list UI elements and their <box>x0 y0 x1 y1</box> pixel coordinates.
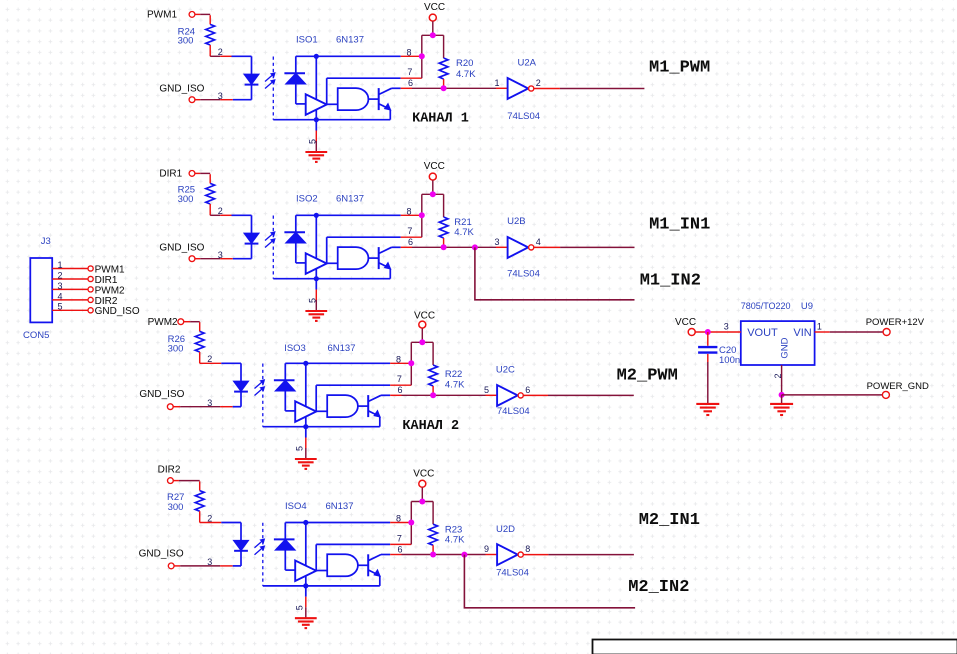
svg-text:100n: 100n <box>719 355 740 366</box>
svg-text:5: 5 <box>307 298 317 303</box>
svg-text:74LS04: 74LS04 <box>496 568 529 579</box>
svg-text:J3: J3 <box>41 236 51 247</box>
svg-text:5: 5 <box>307 139 317 144</box>
svg-text:7: 7 <box>397 374 402 384</box>
svg-text:74LS04: 74LS04 <box>507 268 540 279</box>
svg-text:VCC: VCC <box>413 468 434 479</box>
svg-text:VCC: VCC <box>414 311 435 322</box>
svg-text:GND_ISO: GND_ISO <box>95 306 140 317</box>
svg-text:U9: U9 <box>801 301 813 312</box>
svg-text:7805/TO220: 7805/TO220 <box>741 301 791 311</box>
svg-text:4: 4 <box>536 237 541 247</box>
svg-text:3: 3 <box>495 237 500 247</box>
svg-text:9: 9 <box>484 544 489 554</box>
svg-text:74LS04: 74LS04 <box>507 111 540 122</box>
svg-text:GND: GND <box>780 337 791 358</box>
svg-text:DIR1: DIR1 <box>159 168 182 179</box>
svg-text:ISO3: ISO3 <box>284 343 306 354</box>
svg-text:5: 5 <box>294 446 304 451</box>
svg-text:300: 300 <box>168 343 184 354</box>
svg-text:VCC: VCC <box>675 317 696 328</box>
svg-text:M1_PWM: M1_PWM <box>649 59 710 78</box>
svg-text:PWM2: PWM2 <box>95 285 125 296</box>
svg-text:300: 300 <box>178 194 194 205</box>
svg-text:4.7K: 4.7K <box>454 227 474 238</box>
svg-text:8: 8 <box>407 207 412 217</box>
svg-text:POWER+12V: POWER+12V <box>866 317 925 328</box>
svg-text:6: 6 <box>398 385 403 395</box>
svg-text:8: 8 <box>396 355 401 365</box>
svg-text:U2D: U2D <box>496 524 515 535</box>
svg-text:3: 3 <box>207 557 212 567</box>
svg-text:5: 5 <box>294 605 304 610</box>
svg-text:6N137: 6N137 <box>336 194 364 205</box>
svg-text:POWER_GND: POWER_GND <box>867 381 929 392</box>
svg-text:2: 2 <box>207 513 212 523</box>
svg-text:GND_ISO: GND_ISO <box>139 389 184 400</box>
svg-text:4.7K: 4.7K <box>445 379 465 390</box>
svg-text:6N137: 6N137 <box>328 343 356 354</box>
svg-text:2: 2 <box>207 354 212 364</box>
svg-text:U2A: U2A <box>518 58 537 69</box>
svg-text:GND_ISO: GND_ISO <box>159 242 204 253</box>
svg-text:R20: R20 <box>456 58 473 69</box>
svg-text:M2_IN2: M2_IN2 <box>628 578 689 597</box>
svg-text:VIN: VIN <box>793 327 811 339</box>
svg-text:U2B: U2B <box>507 216 525 227</box>
svg-text:M2_IN1: M2_IN1 <box>639 511 700 530</box>
svg-text:8: 8 <box>407 48 412 58</box>
svg-text:1: 1 <box>495 78 500 88</box>
svg-text:GND_ISO: GND_ISO <box>159 83 204 94</box>
svg-text:1: 1 <box>58 260 63 270</box>
svg-text:1: 1 <box>817 322 822 332</box>
svg-text:КАНАЛ 2: КАНАЛ 2 <box>402 419 459 434</box>
svg-text:M1_IN1: M1_IN1 <box>649 216 710 235</box>
svg-text:7: 7 <box>397 533 402 543</box>
svg-text:ISO2: ISO2 <box>296 194 318 205</box>
svg-text:КАНАЛ 1: КАНАЛ 1 <box>412 112 469 127</box>
svg-text:ISO4: ISO4 <box>285 501 307 512</box>
svg-text:7: 7 <box>407 226 412 236</box>
svg-text:6: 6 <box>408 237 413 247</box>
svg-text:2: 2 <box>58 270 63 280</box>
svg-text:PWM1: PWM1 <box>95 264 125 275</box>
svg-text:3: 3 <box>207 398 212 408</box>
svg-text:74LS04: 74LS04 <box>497 406 530 417</box>
svg-text:2: 2 <box>536 78 541 88</box>
svg-text:6: 6 <box>398 544 403 554</box>
svg-text:CON5: CON5 <box>23 330 49 341</box>
svg-text:5: 5 <box>484 385 489 395</box>
svg-text:M1_IN2: M1_IN2 <box>640 272 701 291</box>
svg-text:2: 2 <box>218 206 223 216</box>
svg-text:3: 3 <box>724 322 729 332</box>
svg-text:DIR2: DIR2 <box>158 465 181 476</box>
svg-text:8: 8 <box>525 544 530 554</box>
svg-text:VCC: VCC <box>424 161 445 172</box>
svg-text:6N137: 6N137 <box>326 501 354 512</box>
svg-text:4.7K: 4.7K <box>456 69 476 80</box>
svg-text:6: 6 <box>525 385 530 395</box>
svg-text:3: 3 <box>58 281 63 291</box>
svg-text:GND_ISO: GND_ISO <box>139 549 184 560</box>
svg-text:3: 3 <box>218 91 223 101</box>
svg-text:8: 8 <box>396 514 401 524</box>
svg-text:ISO1: ISO1 <box>296 35 318 46</box>
svg-text:M2_PWM: M2_PWM <box>617 367 678 386</box>
svg-text:5: 5 <box>58 302 63 312</box>
svg-text:PWM2: PWM2 <box>148 317 178 328</box>
svg-text:PWM1: PWM1 <box>147 10 177 21</box>
svg-text:3: 3 <box>218 250 223 260</box>
svg-text:4.7K: 4.7K <box>445 535 465 546</box>
svg-text:300: 300 <box>178 35 194 46</box>
svg-text:2: 2 <box>773 373 783 378</box>
svg-text:300: 300 <box>168 502 184 513</box>
svg-text:7: 7 <box>407 67 412 77</box>
svg-text:DIR1: DIR1 <box>95 275 118 286</box>
svg-text:U2C: U2C <box>496 364 515 375</box>
svg-text:2: 2 <box>218 47 223 57</box>
svg-text:6N137: 6N137 <box>336 35 364 46</box>
svg-text:VOUT: VOUT <box>747 327 778 339</box>
svg-text:4: 4 <box>58 291 63 301</box>
svg-text:VCC: VCC <box>424 2 445 13</box>
svg-text:DIR2: DIR2 <box>95 296 118 307</box>
svg-text:6: 6 <box>408 78 413 88</box>
